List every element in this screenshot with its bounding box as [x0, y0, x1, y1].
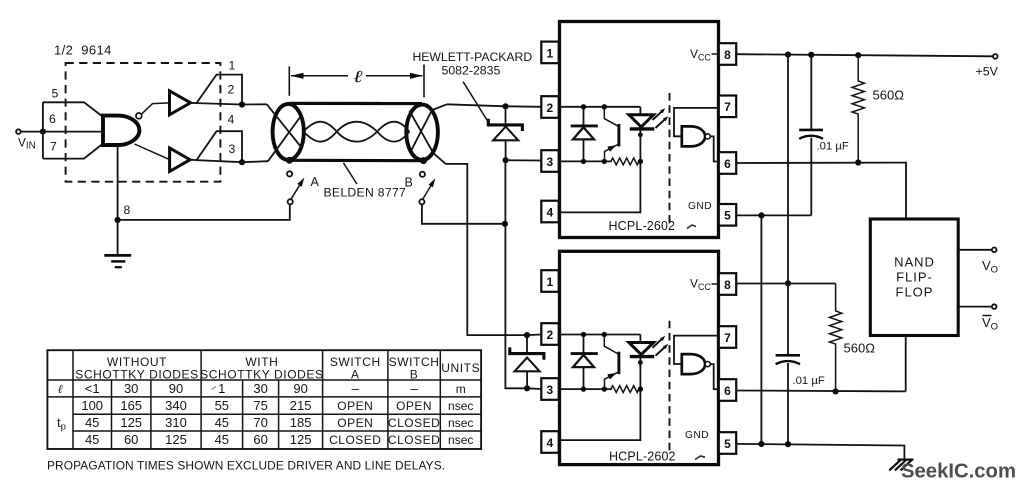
- U3 pin 5: [719, 432, 736, 454]
- junction cathode rail emitter: [602, 159, 607, 164]
- U3 pin 6: [719, 379, 736, 401]
- gate U1A NAND: [103, 116, 139, 145]
- svg-text:.01 µF: .01 µF: [793, 375, 825, 387]
- U2 pin 4: [541, 201, 558, 223]
- svg-text:UNITS: UNITS: [441, 361, 480, 375]
- resistor R1 560 ohm: [852, 55, 864, 162]
- ground symbol G1: [104, 255, 131, 267]
- svg-text:3: 3: [229, 142, 236, 156]
- svg-text:75: 75: [253, 398, 267, 413]
- capacitor C2 bottom lead: [787, 363, 789, 444]
- svg-text:OPEN: OPEN: [337, 416, 373, 430]
- wire U3 VCC tick: [712, 283, 718, 285]
- capacitor C1 bottom lead: [810, 138, 812, 216]
- wire VIN to junction: [21, 131, 43, 133]
- U3 internal network copy: [560, 321, 719, 453]
- svg-text:4: 4: [546, 436, 553, 450]
- buffer U1C triangle: [170, 148, 190, 171]
- svg-text:340: 340: [165, 398, 187, 413]
- schottky diode CR2 cathode lead: [526, 335, 528, 352]
- wire internal cathode rail: [560, 160, 612, 162]
- svg-text:ℓ: ℓ: [353, 67, 363, 86]
- wire gate to bottom buffer: [135, 144, 170, 160]
- svg-text:1: 1: [229, 59, 236, 73]
- switch A arrowhead: [297, 178, 304, 187]
- gate output AND shape: [682, 126, 705, 146]
- svg-text:CLOSED: CLOSED: [388, 433, 440, 447]
- junction R1 to pin6 wire: [855, 159, 861, 165]
- junction VIN node: [40, 129, 46, 135]
- wire VO bar output: [958, 306, 992, 308]
- wire buffer U1B output to pin 2: [191, 103, 243, 105]
- U3 pin 2: [541, 323, 558, 345]
- svg-text:OPEN: OPEN: [396, 399, 432, 413]
- switch A arm: [291, 183, 301, 199]
- junction C2 pin5: [785, 441, 791, 447]
- svg-text:2: 2: [546, 328, 553, 342]
- svg-text:1: 1: [546, 275, 553, 289]
- transistor Q emitter lead: [605, 144, 619, 161]
- transistor Q collector lead: [604, 107, 618, 127]
- svg-text:5082-2835: 5082-2835: [442, 64, 501, 78]
- dimension arrowhead right: [410, 73, 423, 79]
- wire pin 4 loop: [197, 131, 243, 162]
- schottky diode CR2 anode lead: [526, 371, 528, 388]
- U2 internal input network: [560, 93, 719, 225]
- svg-text:VO: VO: [982, 315, 998, 333]
- svg-text:ℓ: ℓ: [58, 382, 63, 396]
- junction R2 to pin6 wire: [833, 388, 839, 394]
- diode internal protection cathode bar: [571, 124, 598, 127]
- dimension tick right: [423, 65, 425, 98]
- junction cable right shield node: [420, 157, 427, 164]
- junction CR1 anode: [503, 157, 509, 163]
- wire input branch vertical: [42, 102, 44, 158]
- svg-text:310: 310: [165, 415, 187, 430]
- junction rail vcc drop: [785, 52, 791, 58]
- svg-text:HCPL-2602: HCPL-2602: [609, 450, 676, 464]
- svg-text:4: 4: [546, 205, 553, 219]
- wire driver out B to cable: [242, 161, 268, 162]
- svg-text:30: 30: [124, 381, 138, 396]
- svg-text:nsec: nsec: [448, 399, 473, 413]
- node VIN input terminal: [16, 129, 21, 134]
- wire flip-flop bottom to U3 pin 6: [905, 336, 907, 392]
- wire buffer U1C output to pin 3: [190, 160, 242, 163]
- capacitor C1 bottom plate: [799, 136, 823, 139]
- label VO bar overline: [983, 315, 992, 317]
- svg-text:125: 125: [290, 432, 312, 447]
- wire gate output to pin 6: [710, 136, 719, 161]
- wire U3 pin 8 vcc: [736, 283, 835, 285]
- table row lines: [47, 380, 481, 431]
- dimension tick left: [288, 66, 290, 95]
- gate output bubble: [705, 134, 710, 139]
- svg-text:560Ω: 560Ω: [844, 341, 876, 356]
- wire U3 pin 6 to flip-flop: [736, 390, 906, 393]
- svg-text:60: 60: [124, 432, 138, 447]
- junction anode rail transistor: [602, 104, 607, 109]
- wire vcc drop to U3 pin 8: [787, 55, 789, 284]
- faint scan mark: [212, 387, 217, 390]
- svg-text:125: 125: [120, 415, 142, 430]
- cable sheath left ellipse: [273, 104, 304, 160]
- svg-text:A: A: [351, 368, 360, 382]
- LED triangle: [629, 115, 654, 127]
- junction ground node: [115, 217, 121, 223]
- junction resistor LED node: [638, 159, 643, 164]
- svg-text:4: 4: [228, 113, 235, 127]
- LED cathode bar: [630, 127, 655, 130]
- svg-text:60: 60: [253, 432, 267, 447]
- wire U3 pin 5 ground: [736, 444, 904, 460]
- schottky diode CR1 anode triangle: [493, 127, 518, 141]
- wire pin 8 to ground: [117, 147, 119, 255]
- transistor Q emitter arrow: [607, 145, 616, 152]
- switch B top terminal: [420, 172, 425, 177]
- svg-text:A: A: [311, 175, 320, 189]
- schottky diode CR1 cathode bar: [488, 119, 522, 131]
- svg-text:5: 5: [724, 209, 731, 223]
- U3 pin 3: [541, 378, 558, 400]
- svg-text:VCC: VCC: [690, 47, 711, 62]
- node VO bar terminal: [992, 304, 997, 309]
- svg-text:CLOSED: CLOSED: [388, 416, 440, 430]
- U3 pin 4: [541, 431, 558, 453]
- svg-text:HEWLETT-PACKARD: HEWLETT-PACKARD: [413, 50, 533, 64]
- svg-text:SeekIC.com: SeekIC.com: [901, 461, 1016, 483]
- svg-text:NAND: NAND: [894, 255, 935, 270]
- op-amp U3 HCPL-2602 package body: [560, 251, 719, 464]
- capacitor C1 top lead: [810, 55, 812, 130]
- wire twisted pair crossover left B: [268, 115, 302, 162]
- svg-text:215: 215: [290, 398, 312, 413]
- junction U3 vcc drop: [785, 280, 791, 286]
- junction rail resistor R1: [855, 52, 861, 58]
- svg-text:185: 185: [290, 415, 312, 430]
- svg-text:7: 7: [50, 140, 57, 154]
- wire pin 1 loop: [197, 75, 243, 105]
- U3 pin 1: [541, 270, 558, 292]
- svg-text:45: 45: [215, 432, 229, 447]
- svg-text:B: B: [410, 368, 419, 382]
- svg-text:3: 3: [546, 383, 553, 397]
- svg-text:–: –: [410, 381, 418, 396]
- wire U2 pin 6 to flip-flop: [736, 163, 906, 219]
- svg-text:m: m: [456, 382, 466, 396]
- LED blob: [638, 132, 643, 137]
- svg-text:HCPL-2602: HCPL-2602: [609, 219, 676, 233]
- label pointer to schottky diode: [463, 82, 488, 122]
- svg-text:125: 125: [165, 432, 187, 447]
- wire CR2 anode to IC2 pin 3: [527, 387, 541, 390]
- junction CR2 cathode: [524, 332, 530, 338]
- wire VCC tick: [712, 53, 718, 55]
- svg-text:–: –: [352, 381, 360, 396]
- svg-text:1/2 9614: 1/2 9614: [54, 43, 112, 58]
- switch A bottom terminal: [288, 199, 293, 204]
- wire CR2 cathode to IC2 pin 2: [527, 334, 541, 337]
- wire pin 7 to output gate: [674, 108, 719, 136]
- svg-text:7: 7: [724, 100, 731, 114]
- svg-text:nsec: nsec: [448, 433, 473, 447]
- svg-text:GND: GND: [688, 201, 712, 212]
- capacitor C2 top lead: [787, 283, 789, 355]
- chassis ground symbol: [889, 460, 913, 471]
- wire switch B to node: [422, 204, 505, 223]
- svg-text:CLOSED: CLOSED: [329, 433, 381, 447]
- svg-text:B: B: [405, 175, 413, 189]
- svg-text:VIN: VIN: [18, 136, 36, 152]
- U2 pin 8: [719, 43, 736, 65]
- wire IC1 pin3 net down to IC2 pin 3: [505, 160, 527, 388]
- U3 pin 7: [719, 326, 736, 348]
- junction rail cap C1: [808, 52, 814, 58]
- svg-text:PROPAGATION TIMES SHOWN EXCLUD: PROPAGATION TIMES SHOWN EXCLUDE DRIVER A…: [47, 459, 445, 473]
- svg-text:+5V: +5V: [976, 65, 999, 79]
- light emission arrow 2: [656, 118, 667, 128]
- wire LED cathode to pin 4: [560, 129, 640, 213]
- svg-text:SCHOTTKY DIODES: SCHOTTKY DIODES: [200, 368, 323, 382]
- svg-text:nsec: nsec: [448, 416, 473, 430]
- svg-text:8: 8: [124, 203, 131, 217]
- svg-text:8: 8: [724, 278, 731, 292]
- svg-text:VO: VO: [982, 258, 998, 276]
- wire twisted pair weave conductor B: [303, 122, 409, 142]
- svg-text:5: 5: [724, 437, 731, 451]
- resistor R2 560 ohm: [830, 284, 842, 392]
- svg-text:100: 100: [81, 398, 103, 413]
- svg-text:2: 2: [546, 101, 553, 115]
- light emission arrow 1: [653, 110, 664, 120]
- wire ground rail down: [760, 215, 762, 444]
- schottky diode CR2 cathode bar: [510, 347, 544, 359]
- svg-text:6: 6: [49, 112, 56, 126]
- wire bubble to top buffer: [141, 103, 169, 114]
- wire cable to IC1 pin 2: [447, 104, 542, 107]
- svg-text:560Ω: 560Ω: [873, 88, 905, 103]
- svg-text:1: 1: [218, 381, 225, 396]
- scan artifact mark U3: [695, 456, 705, 460]
- svg-text:FLOP: FLOP: [896, 285, 934, 300]
- junction pin 3-4 tie: [239, 159, 245, 165]
- scan artifact mark U2: [687, 225, 696, 229]
- svg-text:90: 90: [293, 381, 307, 396]
- svg-text:165: 165: [120, 398, 142, 413]
- svg-text:70: 70: [253, 415, 267, 430]
- wire pin 6 input: [43, 131, 103, 133]
- U2 pin 2: [541, 96, 558, 118]
- svg-text:45: 45: [85, 432, 99, 447]
- schottky diode CR1 cathode lead: [505, 106, 507, 123]
- svg-text:tp: tp: [57, 415, 66, 433]
- wire twisted pair crossover right A: [409, 111, 445, 164]
- svg-text:6: 6: [724, 157, 731, 171]
- dimension arrow line left: [291, 75, 348, 77]
- svg-text:VCC: VCC: [690, 277, 711, 292]
- wire U2 pin 5 ground stub: [736, 214, 811, 216]
- junction gnd rail pin5: [758, 441, 764, 447]
- diode internal protection anode lead: [583, 139, 585, 161]
- diode internal protection vertical leads: [583, 107, 585, 126]
- svg-text:55: 55: [215, 398, 229, 413]
- wire twisted pair weave conductor A: [303, 122, 409, 142]
- cable sheath right ellipse: [406, 105, 438, 160]
- svg-text:90: 90: [169, 381, 183, 396]
- diode internal protection triangle: [573, 127, 594, 139]
- capacitor C2 top plate: [776, 354, 800, 357]
- cable sheath top line: [289, 102, 422, 105]
- junction switch B net: [502, 221, 508, 227]
- svg-text:7: 7: [724, 331, 731, 345]
- switch B arrowhead: [429, 178, 436, 187]
- LED anode lead: [639, 107, 641, 115]
- U2 pin 1: [541, 42, 558, 64]
- svg-text:3: 3: [546, 155, 553, 169]
- svg-text:1: 1: [546, 46, 553, 60]
- table column lines: [73, 350, 440, 449]
- schottky diode CR1 anode lead: [505, 140, 507, 160]
- svg-text:30: 30: [253, 381, 267, 396]
- svg-text:45: 45: [215, 415, 229, 430]
- svg-text:BELDEN 8777: BELDEN 8777: [324, 186, 407, 200]
- U2 pin 5: [719, 204, 736, 226]
- junction pin 1-2 tie: [239, 101, 245, 107]
- wire cable bottom to IC2 pin 2: [446, 164, 527, 335]
- switch B bottom terminal: [419, 199, 424, 204]
- junction anode rail diode: [581, 104, 586, 109]
- junction cable left shield node: [286, 157, 293, 164]
- switch A top terminal: [287, 171, 292, 176]
- node +5V terminal: [993, 54, 998, 59]
- label BELDEN 8777 pointer: [343, 163, 357, 184]
- wire internal anode rail: [560, 106, 640, 108]
- U2 pin 3: [541, 150, 558, 172]
- U2 pin 7: [719, 96, 736, 118]
- capacitor C2 bottom plate: [776, 361, 800, 364]
- svg-text:8: 8: [724, 48, 731, 62]
- svg-text:<1: <1: [85, 381, 100, 396]
- gate U1A output bubble: [136, 113, 142, 119]
- wire twisted pair crossover right B: [410, 104, 447, 153]
- junction CR1 cathode: [502, 103, 508, 109]
- cable sheath bottom line: [289, 159, 423, 163]
- svg-text:2: 2: [228, 83, 235, 97]
- junction cathode rail diode: [581, 159, 586, 164]
- junction CR2 anode: [524, 385, 530, 391]
- wire twisted pair crossover left A: [267, 104, 303, 148]
- capacitor C1 top plate: [799, 129, 823, 132]
- table outer border: [47, 350, 481, 449]
- resistor internal zigzag: [611, 158, 641, 165]
- op-amp U2 HCPL-2602 package body: [560, 22, 719, 238]
- U3 pin 8: [719, 273, 736, 295]
- wire CR1 anode to IC1 pin 3: [506, 159, 542, 161]
- svg-text:5: 5: [52, 87, 59, 101]
- svg-text:GND: GND: [685, 430, 709, 441]
- node VO terminal: [992, 248, 997, 253]
- flip-flop box NAND FLIP-FLOP: [870, 219, 958, 336]
- switch B arm: [423, 183, 432, 199]
- wire ground node to switch A: [118, 204, 290, 220]
- svg-text:.01 µF: .01 µF: [817, 141, 849, 153]
- U2 pin 6: [719, 152, 736, 174]
- buffer U1B triangle: [170, 91, 191, 115]
- U1 9614 driver dashed package outline: [66, 63, 221, 182]
- wire driver out A to cable: [242, 103, 267, 105]
- schottky diode CR2 anode triangle: [515, 358, 540, 372]
- dimension arrowhead left: [291, 73, 304, 79]
- svg-text:45: 45: [85, 415, 99, 430]
- wire pin 7 input: [43, 144, 103, 159]
- wire +5V supply rail: [736, 54, 993, 56]
- svg-text:FLIP-: FLIP-: [896, 270, 933, 285]
- dimension arrow line right: [366, 75, 423, 77]
- isolation dashed line: [669, 93, 671, 225]
- wire VO output: [958, 249, 992, 251]
- wire pin 5 input: [43, 102, 103, 116]
- junction U2 pin5 gnd rail: [758, 212, 764, 218]
- transistor Q base bar: [617, 124, 620, 147]
- svg-text:OPEN: OPEN: [337, 399, 373, 413]
- svg-text:SCHOTTKY DIODES: SCHOTTKY DIODES: [75, 368, 198, 382]
- svg-text:6: 6: [724, 384, 731, 398]
